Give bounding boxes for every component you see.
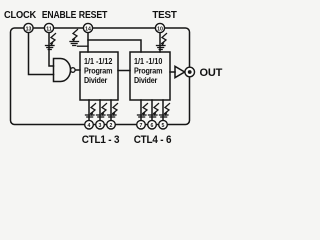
NAND output bubble <box>71 68 76 73</box>
svg-text:1/1 -1/10: 1/1 -1/10 <box>134 57 162 66</box>
package outline <box>11 28 190 125</box>
pin RESET <box>83 23 92 32</box>
label CTL4-6 <box>134 135 172 147</box>
svg-text:Program: Program <box>134 66 163 75</box>
wire divider 2 to output buffer <box>170 71 175 73</box>
svg-text:13: 13 <box>26 26 32 32</box>
divider block 1 <box>80 52 118 100</box>
pin CTL5 <box>148 120 157 129</box>
wire TEST to divider 2 <box>159 33 161 52</box>
protection network on CTL1 <box>86 104 96 118</box>
svg-text:2: 2 <box>110 123 113 129</box>
svg-text:3: 3 <box>99 123 102 129</box>
pin CTL2 <box>96 120 105 129</box>
protection network on CTL3 <box>108 104 118 118</box>
svg-text:7: 7 <box>140 123 143 129</box>
svg-text:10: 10 <box>157 26 163 32</box>
svg-text:4: 4 <box>88 123 91 129</box>
pin OUT <box>185 67 195 77</box>
output buffer <box>175 66 185 77</box>
svg-text:CLOCK: CLOCK <box>4 10 36 21</box>
wire CTL2 <box>99 100 101 120</box>
divider block 2 <box>130 52 170 100</box>
wire CTL4 <box>140 100 142 120</box>
label CLOCK <box>4 10 36 21</box>
protection network on TEST input <box>157 34 167 50</box>
svg-text:Divider: Divider <box>134 76 157 85</box>
svg-text:RESET: RESET <box>79 9 108 21</box>
svg-text:OUT: OUT <box>200 67 223 79</box>
pin CTL3 <box>107 120 116 129</box>
label CTL1-3 <box>82 135 120 147</box>
NAND gate U1 <box>54 59 71 82</box>
protection network on CTL5 <box>149 104 159 118</box>
pin CTL6 <box>159 120 168 129</box>
svg-text:5: 5 <box>162 123 165 129</box>
svg-text:11: 11 <box>46 26 52 32</box>
wire RESET to divider 1 <box>87 33 89 52</box>
wire RESET branch to divider 2 <box>88 40 141 52</box>
svg-text:ENABLE: ENABLE <box>42 10 76 21</box>
pin CTL1 <box>85 120 94 129</box>
wire CLOCK to NAND input <box>29 33 54 75</box>
svg-text:6: 6 <box>151 123 154 129</box>
protection network on CTL6 <box>160 104 170 118</box>
wire CTL3 <box>110 100 112 120</box>
wire CTL1 <box>88 100 90 120</box>
svg-text:TEST: TEST <box>152 10 176 21</box>
svg-text:Divider: Divider <box>84 76 107 85</box>
wire CTL5 <box>151 100 153 120</box>
pin TEST <box>155 23 164 32</box>
protection network on CTL2 <box>97 104 107 118</box>
label TEST <box>152 10 176 21</box>
label OUT <box>200 67 223 79</box>
label ENABLE <box>42 10 76 21</box>
svg-text:CTL1 - 3: CTL1 - 3 <box>82 135 120 147</box>
svg-text:CTL4 - 6: CTL4 - 6 <box>134 135 172 147</box>
svg-text:1/1 -1/12: 1/1 -1/12 <box>84 57 112 66</box>
pin CTL4 <box>137 120 146 129</box>
wire protection to RESET <box>78 45 89 47</box>
pin ENABLE <box>44 23 53 32</box>
wire CTL6 <box>162 100 164 120</box>
protection network on ENABLE input <box>46 34 56 50</box>
svg-text:Program: Program <box>84 66 113 75</box>
label RESET <box>79 9 108 21</box>
wire NAND output to divider 1 <box>75 69 80 71</box>
protection network on RESET input <box>70 30 79 46</box>
pin CLOCK <box>24 23 33 32</box>
wire divider 1 to divider 2 <box>118 70 130 72</box>
protection network on CTL4 <box>138 104 148 118</box>
svg-text:14: 14 <box>85 26 91 32</box>
wire ENABLE to NAND input <box>49 33 54 66</box>
